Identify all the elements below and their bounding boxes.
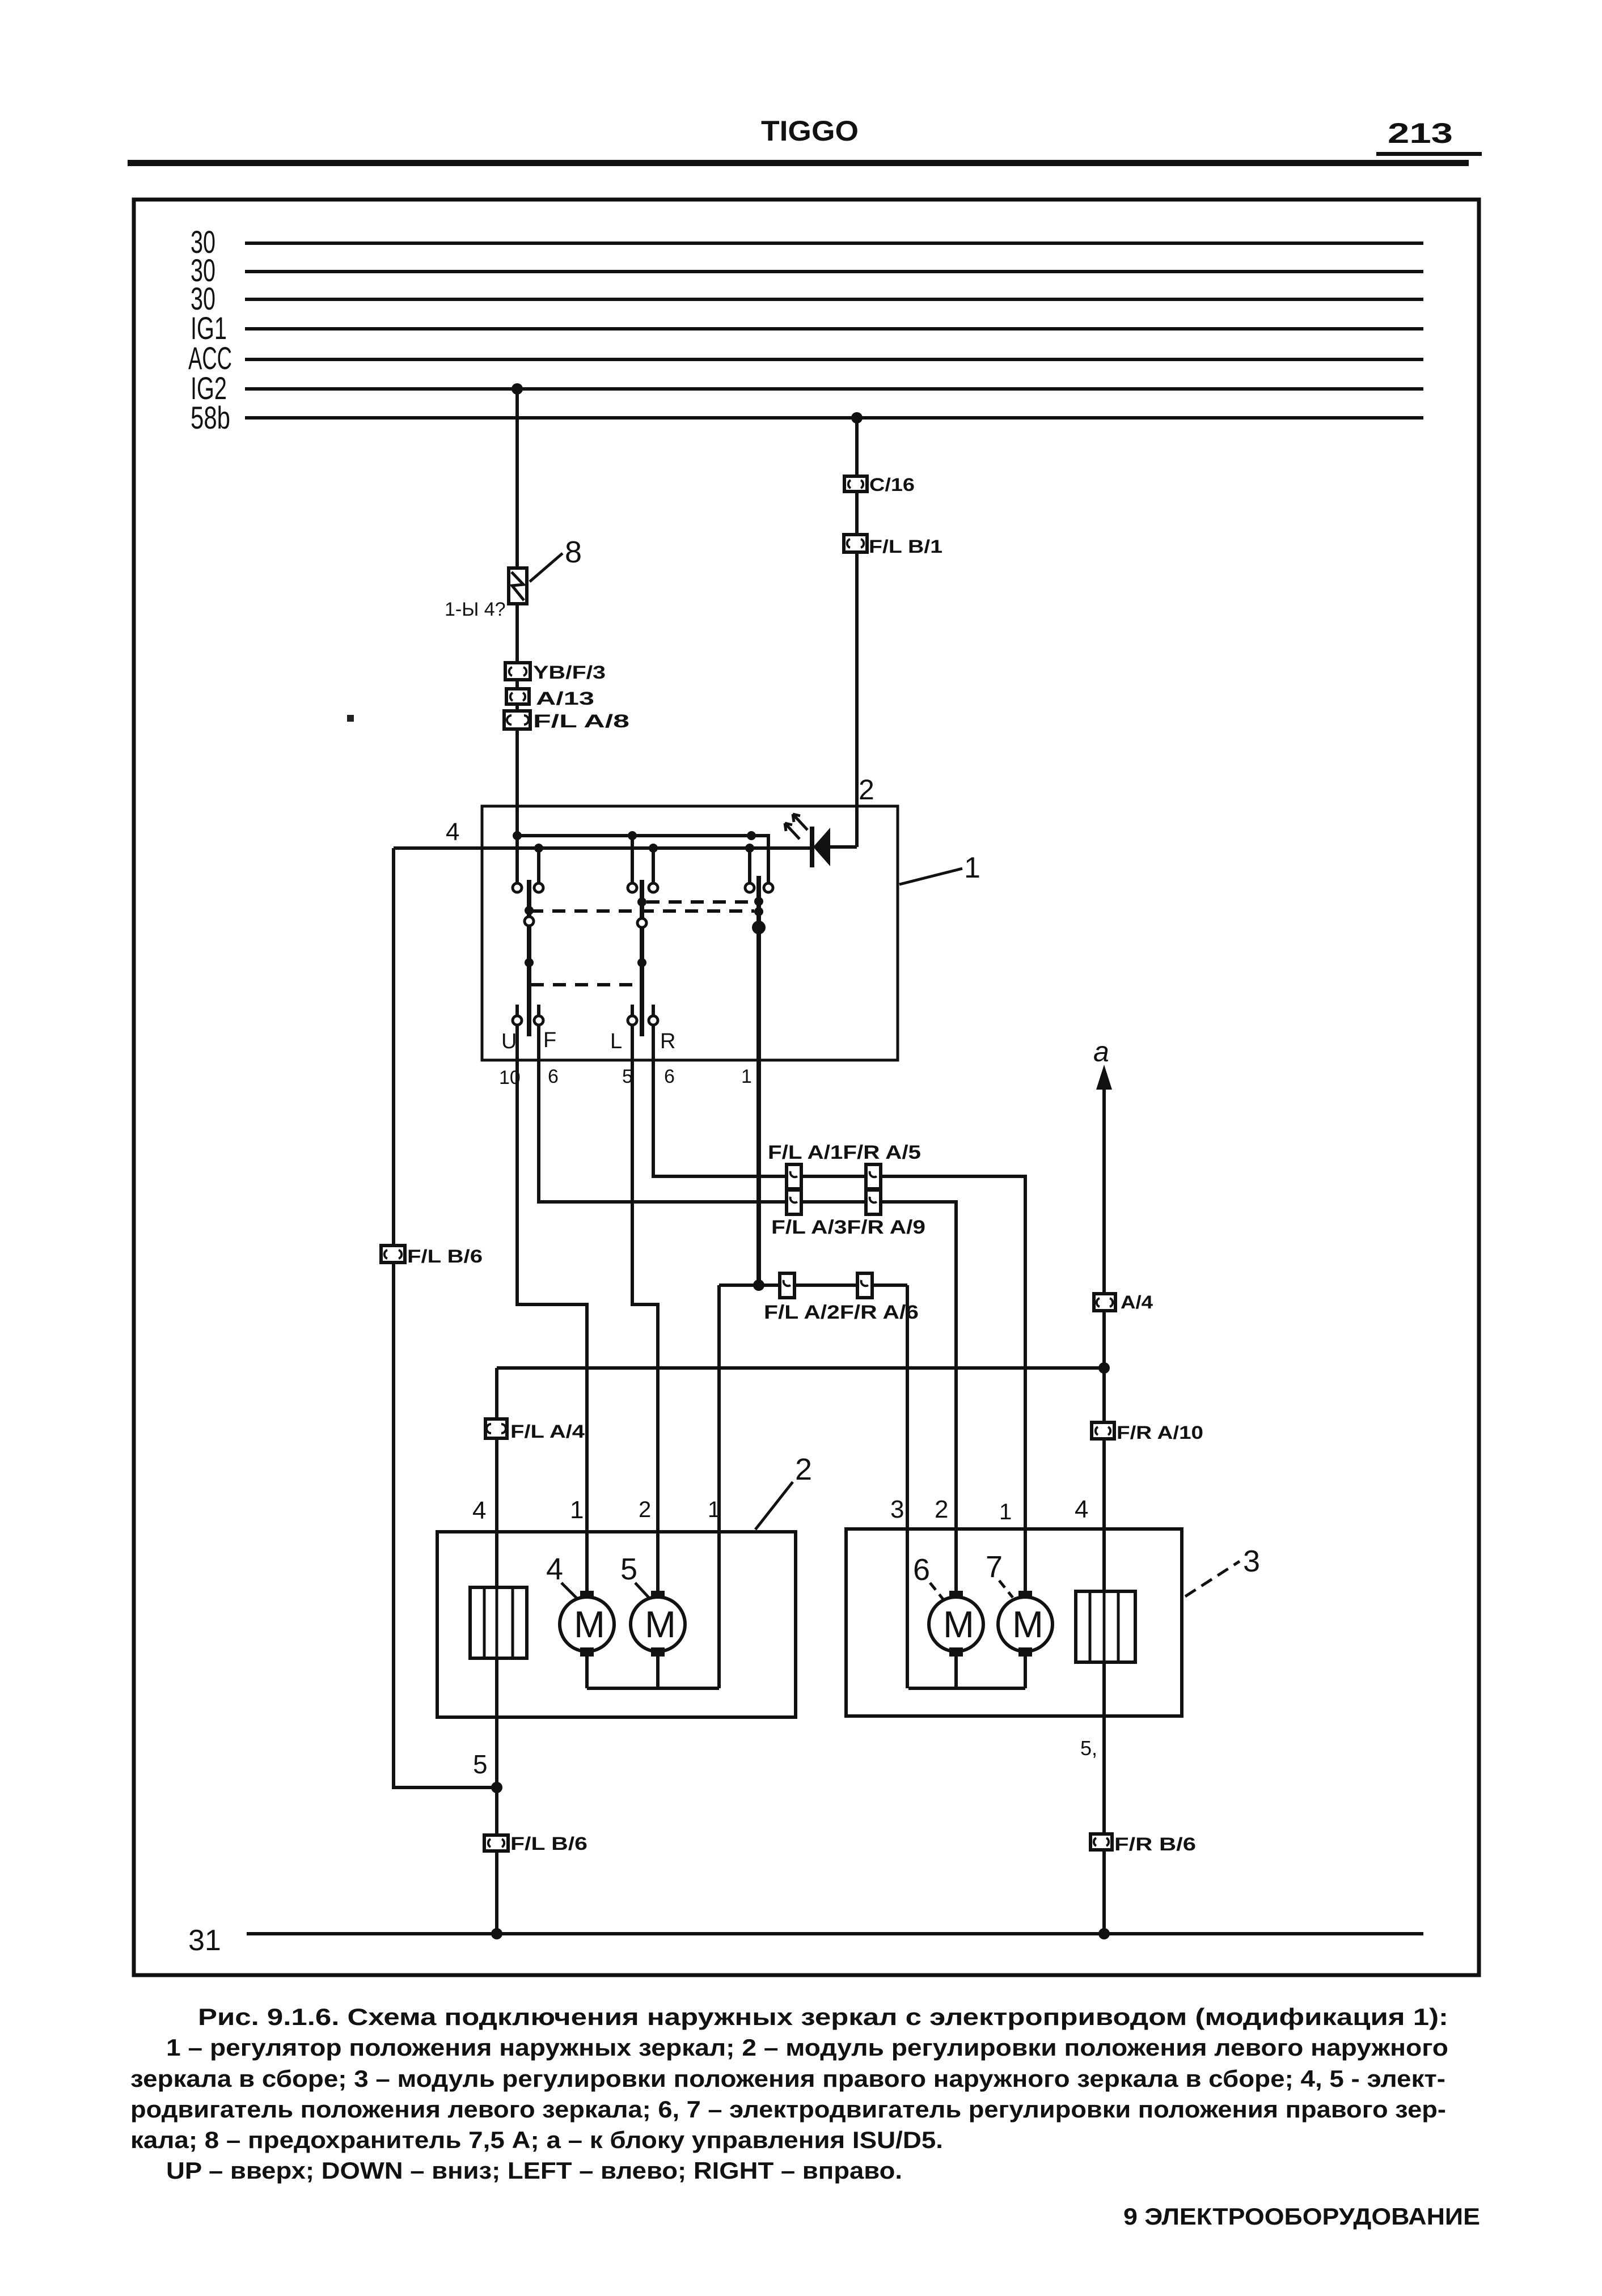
bus wire IG2	[245, 387, 1423, 391]
svg-text:Рис. 9.1.6. Схема подключения: Рис. 9.1.6. Схема подключения наружных з…	[198, 2003, 1448, 2030]
wire a to ISU/D5 with arrow	[1102, 1082, 1106, 1934]
wire from 58b down to switch block	[855, 418, 859, 847]
svg-text:F/L B/6: F/L B/6	[510, 1833, 587, 1854]
junction dot	[513, 831, 522, 840]
output wire switch pin to left motor 5	[632, 1026, 658, 1596]
fuse 8 (7.5A)	[509, 568, 527, 604]
svg-text:M: M	[1012, 1603, 1043, 1645]
output wire switch pin to right module pin 1	[653, 1026, 1025, 1596]
svg-text:F/R A/10: F/R A/10	[1117, 1422, 1203, 1443]
motor 6	[929, 1591, 983, 1657]
junction dot on IG2	[512, 383, 523, 395]
svg-text:1: 1	[741, 1066, 752, 1087]
svg-text:M: M	[943, 1603, 974, 1645]
svg-text:F/L A/4: F/L A/4	[510, 1421, 585, 1442]
connector F/L A/4	[485, 1419, 507, 1438]
svg-text:F/L A/8: F/L A/8	[533, 711, 629, 731]
junction dot	[1098, 1362, 1110, 1374]
svg-text:YB/F/3: YB/F/3	[533, 662, 606, 683]
right heater element	[1076, 1591, 1135, 1662]
junction dot	[628, 831, 637, 840]
svg-text:4: 4	[446, 818, 459, 846]
svg-text:3: 3	[1243, 1544, 1260, 1578]
connector F/L B/6 lower	[484, 1835, 508, 1851]
left module common rail	[585, 1657, 589, 1688]
svg-text:a: a	[1093, 1036, 1109, 1067]
bus wire 30 (2)	[245, 270, 1423, 273]
bus wire 58b	[245, 416, 1423, 420]
svg-text:2: 2	[795, 1452, 812, 1486]
left ground wire from switch pin 4	[394, 848, 497, 1787]
wire from fuse down to switch block	[515, 604, 519, 836]
header rule	[128, 160, 1469, 166]
svg-text:L: L	[610, 1030, 622, 1053]
underline under page number	[1376, 152, 1482, 156]
lower contact stubs	[515, 1005, 519, 1015]
svg-text:7: 7	[986, 1550, 1003, 1584]
connector F/L B/6 upper	[381, 1246, 405, 1263]
svg-text:5,: 5,	[1080, 1736, 1097, 1760]
junction dot	[745, 844, 754, 853]
svg-text:F/L B/6: F/L B/6	[407, 1246, 483, 1266]
junction dot	[534, 844, 543, 853]
svg-text:M: M	[645, 1603, 676, 1645]
leader line to label 8	[530, 553, 563, 582]
heater feed wire row	[497, 1366, 1104, 1370]
svg-text:8: 8	[565, 535, 582, 569]
junction dot left heater return	[491, 1782, 502, 1793]
motor 5	[631, 1591, 685, 1657]
bus wire 30 (3)	[245, 298, 1423, 301]
svg-text:4: 4	[472, 1497, 486, 1524]
svg-text:1: 1	[708, 1497, 720, 1522]
switch top bus	[517, 834, 751, 837]
junction dot	[753, 1280, 764, 1291]
svg-text:1 – регулятор положения наружн: 1 – регулятор положения наружных зеркал;…	[166, 2034, 1448, 2061]
leader line to label 1	[899, 869, 962, 884]
svg-text:58b: 58b	[191, 400, 230, 435]
ground bus 31	[247, 1932, 1423, 1935]
page speck	[347, 715, 354, 722]
junction dot on 58b	[851, 412, 863, 423]
connector F/R A/10	[1092, 1422, 1114, 1439]
connector F/L A/8	[504, 711, 530, 729]
svg-text:9 ЭЛЕКТРООБОРУДОВАНИЕ: 9 ЭЛЕКТРООБОРУДОВАНИЕ	[1123, 2203, 1480, 2230]
connector A/13	[506, 689, 529, 704]
svg-text:F/R B/6: F/R B/6	[1114, 1834, 1196, 1854]
common wire row to both modules	[719, 1283, 907, 1287]
svg-text:зеркала в сборе; 3 – модуль ре: зеркала в сборе; 3 – модуль регулировки …	[130, 2065, 1445, 2092]
bend feeding right contact of third pole	[751, 836, 768, 882]
switch blade pole 2	[637, 880, 646, 1036]
mirror switch block 1	[482, 806, 898, 1060]
svg-text:5: 5	[620, 1552, 637, 1586]
svg-text:1: 1	[999, 1499, 1012, 1524]
left mirror module 2	[437, 1532, 796, 1717]
leader	[999, 1581, 1013, 1598]
svg-text:1: 1	[570, 1496, 584, 1524]
svg-text:1-Ы 4?: 1-Ы 4?	[445, 599, 506, 620]
bus wire IG1	[245, 327, 1423, 331]
diagram frame	[134, 200, 1479, 1975]
left heater wire down	[495, 1368, 498, 1934]
junction dot	[747, 831, 756, 840]
connector YB/F/3	[505, 663, 530, 680]
svg-text:F/L A/2F/R A/6: F/L A/2F/R A/6	[764, 1302, 919, 1323]
wire down to left module common	[717, 1285, 721, 1688]
mechanical link dashed line	[530, 909, 754, 913]
svg-text:A/4: A/4	[1121, 1292, 1153, 1312]
svg-text:R: R	[660, 1030, 675, 1053]
svg-text:родвигатель положения левого з: родвигатель положения левого зеркала; 6,…	[130, 2096, 1446, 2123]
svg-text:F/L A/3F/R A/9: F/L A/3F/R A/9	[771, 1217, 925, 1238]
wire down to right module common	[906, 1285, 909, 1688]
svg-text:6: 6	[664, 1066, 675, 1087]
svg-text:1: 1	[964, 852, 980, 884]
connector pair row F/L A/3 F/R A/9	[787, 1190, 801, 1214]
bus wire ACC	[245, 358, 1423, 361]
left heater element	[470, 1587, 527, 1658]
svg-text:2: 2	[935, 1496, 948, 1523]
switch blade pole 1	[525, 880, 534, 1036]
upper contacts	[513, 883, 522, 892]
svg-text:2: 2	[859, 774, 874, 806]
svg-text:3: 3	[890, 1496, 904, 1523]
leader	[930, 1583, 944, 1600]
svg-text:TIGGO: TIGGO	[761, 115, 859, 147]
svg-text:A/13: A/13	[536, 688, 594, 709]
mechanical link dashed line lower	[531, 983, 640, 986]
contact stubs upper row	[515, 836, 519, 882]
connector F/L B/1	[844, 535, 867, 552]
switch ground line to pin 4	[394, 846, 812, 850]
leader line to label 2	[755, 1482, 793, 1530]
right module common rail	[954, 1657, 958, 1688]
connector C/16	[844, 476, 867, 492]
junction dot	[491, 1928, 502, 1939]
connector A/4	[1094, 1294, 1115, 1311]
svg-text:4: 4	[1075, 1496, 1088, 1523]
switch blade pole 3	[752, 876, 766, 1285]
motor 7	[998, 1591, 1052, 1657]
output wire switch pin to right module pin 2	[539, 1026, 956, 1596]
svg-text:F: F	[543, 1028, 556, 1052]
svg-text:213: 213	[1388, 117, 1453, 149]
svg-text:M: M	[574, 1603, 605, 1645]
svg-text:31: 31	[188, 1924, 221, 1957]
junction dot	[649, 844, 658, 853]
svg-text:F/L A/1F/R A/5: F/L A/1F/R A/5	[768, 1142, 921, 1163]
svg-text:F/L B/1: F/L B/1	[869, 536, 942, 557]
svg-text:5: 5	[473, 1749, 488, 1779]
wire from IG2 down to fuse	[515, 389, 519, 568]
svg-text:6: 6	[548, 1066, 559, 1087]
output wire switch pin to left motor 4	[517, 1026, 587, 1596]
svg-text:кала; 8 – предохранитель 7,5 А: кала; 8 – предохранитель 7,5 А; а – к бл…	[130, 2126, 943, 2153]
leader	[635, 1583, 650, 1599]
bus wire 30 (1)	[245, 242, 1423, 245]
svg-text:UP – вверх; DOWN – вниз; LEFT: UP – вверх; DOWN – вниз; LEFT – влево; R…	[166, 2157, 902, 2184]
svg-text:2: 2	[639, 1497, 651, 1522]
junction dot	[1098, 1928, 1110, 1939]
svg-text:6: 6	[913, 1553, 930, 1587]
connector F/R B/6	[1090, 1834, 1112, 1850]
svg-text:C/16: C/16	[869, 475, 915, 495]
right mirror module 3	[846, 1529, 1182, 1716]
svg-text:U: U	[501, 1030, 517, 1053]
leader line to label 3	[1185, 1561, 1240, 1596]
motor 4	[560, 1591, 614, 1657]
illumination LED diode of switch	[785, 814, 857, 867]
lower contacts	[513, 1016, 522, 1025]
mechanical link dashed line upper	[646, 900, 754, 904]
svg-text:4: 4	[546, 1552, 563, 1586]
connector pair row F/L A/2 F/R A/6	[780, 1273, 794, 1298]
leader	[561, 1583, 578, 1600]
